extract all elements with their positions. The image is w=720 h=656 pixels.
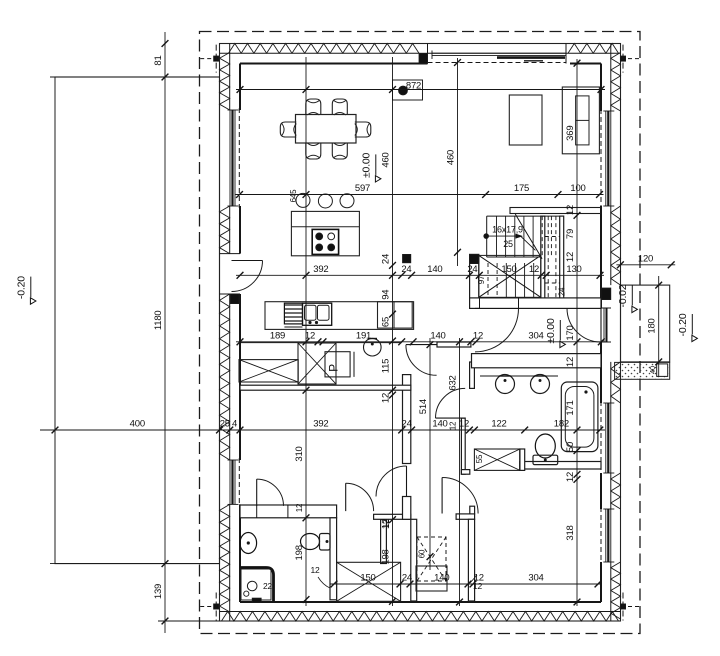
svg-text:645: 645	[289, 189, 298, 202]
svg-text:97: 97	[477, 275, 486, 284]
svg-text:16x17,9: 16x17,9	[492, 225, 523, 235]
svg-text:632: 632	[448, 375, 459, 390]
svg-text:182: 182	[554, 419, 569, 430]
svg-text:180: 180	[647, 318, 658, 333]
svg-text:150: 150	[360, 573, 375, 584]
svg-text:22: 22	[263, 581, 273, 591]
svg-text:12: 12	[310, 565, 320, 575]
svg-text:±0.00: ±0.00	[545, 318, 557, 344]
svg-text:-0.20: -0.20	[16, 276, 28, 299]
svg-text:-0.02: -0.02	[617, 284, 629, 307]
svg-text:25: 25	[503, 239, 513, 249]
svg-text:140: 140	[430, 330, 445, 341]
svg-text:310: 310	[294, 446, 305, 461]
svg-text:1180: 1180	[153, 310, 164, 330]
svg-text:P: P	[327, 364, 341, 372]
svg-text:24: 24	[401, 264, 411, 275]
svg-text:12: 12	[459, 419, 469, 430]
svg-text:198: 198	[294, 545, 305, 560]
svg-text:170: 170	[565, 325, 576, 340]
svg-text:400: 400	[130, 419, 145, 430]
svg-text:460: 460	[381, 152, 392, 167]
svg-text:171: 171	[565, 400, 576, 415]
svg-text:79: 79	[565, 229, 576, 239]
svg-text:514: 514	[418, 399, 429, 414]
svg-text:120: 120	[638, 253, 653, 264]
svg-text:191: 191	[356, 330, 371, 341]
svg-text:369: 369	[565, 126, 576, 141]
svg-text:-0.20: -0.20	[677, 313, 689, 336]
svg-text:139: 139	[153, 584, 164, 599]
svg-text:597: 597	[355, 183, 370, 194]
svg-text:24: 24	[381, 254, 392, 264]
svg-text:140: 140	[434, 573, 449, 584]
svg-text:189: 189	[270, 330, 285, 341]
svg-text:12: 12	[473, 330, 483, 341]
svg-text:100: 100	[570, 183, 585, 194]
svg-text:±0.00: ±0.00	[361, 152, 373, 178]
svg-text:130: 130	[566, 264, 581, 275]
svg-text:12: 12	[381, 393, 392, 403]
svg-text:24: 24	[402, 573, 412, 584]
svg-text:24: 24	[467, 264, 477, 275]
svg-text:65: 65	[381, 317, 392, 327]
svg-text:140: 140	[432, 419, 447, 430]
svg-text:81: 81	[153, 55, 164, 65]
svg-text:460: 460	[446, 150, 457, 165]
svg-text:175: 175	[514, 183, 529, 194]
svg-text:115: 115	[381, 359, 392, 374]
svg-text:94: 94	[381, 290, 392, 300]
svg-text:24: 24	[558, 287, 567, 296]
svg-text:12: 12	[382, 519, 391, 528]
svg-text:60: 60	[418, 549, 427, 558]
svg-text:392: 392	[313, 419, 328, 430]
svg-text:318: 318	[565, 525, 576, 540]
svg-text:140: 140	[427, 264, 442, 275]
svg-text:40: 40	[648, 366, 657, 374]
svg-text:12: 12	[565, 205, 576, 215]
svg-text:4: 4	[232, 419, 237, 430]
svg-text:12: 12	[473, 581, 483, 591]
svg-text:304: 304	[528, 330, 543, 341]
svg-text:198: 198	[381, 549, 392, 564]
svg-text:12: 12	[449, 421, 458, 430]
svg-text:12: 12	[295, 503, 304, 512]
svg-text:12: 12	[565, 252, 576, 262]
svg-text:12: 12	[565, 357, 576, 367]
svg-text:25: 25	[220, 419, 230, 430]
svg-text:12: 12	[565, 472, 576, 482]
svg-text:12: 12	[529, 264, 539, 275]
svg-text:150: 150	[501, 264, 516, 275]
svg-text:24: 24	[402, 419, 412, 430]
svg-text:392: 392	[313, 264, 328, 275]
svg-text:122: 122	[491, 419, 506, 430]
svg-text:50: 50	[565, 442, 576, 452]
svg-text:304: 304	[528, 573, 543, 584]
svg-text:55: 55	[475, 454, 484, 463]
